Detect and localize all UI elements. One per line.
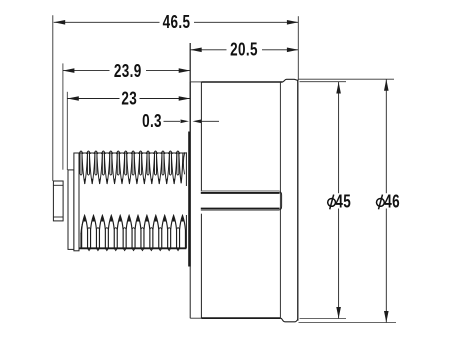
svg-text:45: 45 (335, 192, 351, 213)
motor body can (190, 79, 298, 321)
svg-text:23: 23 (121, 89, 137, 110)
extension line left (46.5, shaft tip face) (52, 15, 54, 181)
dimension 20.5 (190, 40, 298, 132)
collar (thread runout cylinder) (74, 153, 79, 251)
middle groove band (201, 192, 280, 194)
svg-text:23.9: 23.9 (114, 61, 142, 82)
washer B (0.3 mm stop washer) (188, 132, 191, 267)
dimension diameter 46 (377, 79, 400, 322)
svg-text:46: 46 (384, 192, 400, 213)
shaft tip (chamfered end) (53, 181, 63, 221)
svg-text:0.3: 0.3 (142, 111, 162, 132)
extension lines diameter 46 (299, 78, 395, 80)
dimension diameter 45 (328, 82, 351, 319)
washer A (front collar) (68, 170, 74, 250)
threaded shaft section (79, 151, 186, 250)
dimension 23.9 (63, 61, 190, 170)
dimension 0.3 (washer thickness leader) (142, 111, 219, 132)
extension lines diameter 45 (300, 81, 347, 83)
dimension 46.5 (54, 12, 299, 33)
svg-text:20.5: 20.5 (230, 40, 258, 61)
dimension 23 (67, 89, 190, 170)
svg-text:46.5: 46.5 (163, 12, 191, 33)
extension line right face (297, 16, 299, 80)
